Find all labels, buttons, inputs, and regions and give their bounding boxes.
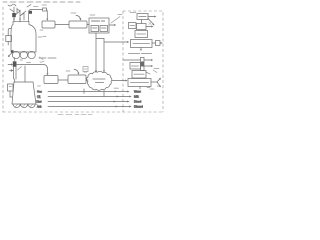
long vertical wire BB to cloud (left) [95,33,97,71]
dark mark at pipe bend [29,11,32,14]
line1 junction tick [83,89,85,94]
svg-text:Char: Char [36,100,42,104]
svg-text:Ash: Ash [37,105,42,109]
svg-text:Gas: Gas [37,90,42,94]
feed manifold label squiggle [8,4,16,6]
mid chain box MB [68,75,86,84]
svg-text:Diesel: Diesel [134,100,142,104]
conveyor lower feed arrow [9,70,13,72]
ref marks above right labels [147,86,159,88]
curved arrow into MB [74,70,79,74]
energy cloud [86,71,111,90]
ref label above mid chain [39,57,56,59]
pipe V1 top to dryer chain [29,10,48,22]
V1 side box pipe [8,29,11,46]
ref squiggle right of BB [111,15,122,24]
cluster4 ref marks [150,69,159,90]
ref dash above valve [34,5,47,7]
V2 side box [8,84,14,91]
right cluster 1: distribution boxes [137,14,148,20]
mid-line arrowheads [114,91,119,108]
top reference-numeral row (tiny text smudge dashes) [3,1,80,3]
V1 right ref mark [38,30,46,60]
box B2 (mill) [69,21,87,28]
right cluster 2: steam turbine boxes [135,31,148,38]
V1 side box [6,36,12,42]
mid chain box MA [44,76,58,84]
char conveyor column [14,62,17,79]
V2 bottom-right arrow [36,104,40,107]
wire MA to MB [58,79,68,81]
diagonal ref arrow [18,67,22,71]
gasifier vessel V1 [11,22,36,52]
BB inner marks [93,27,107,29]
V1 bottom scallops [12,51,19,58]
wire MB to cloud [86,79,88,81]
right cluster 3: heat exchanger [123,59,140,61]
svg-text:Water: Water [134,90,141,94]
right drop wire to V2 [24,66,26,82]
bottom utility line 3 [48,101,128,103]
ticks above conveyor [14,58,16,61]
left dashed boundary [2,7,4,112]
svg-text:Milk: Milk [134,95,139,99]
ref mark above BB [90,14,95,16]
branch bridge wire [96,38,104,40]
wire to steam turbine [104,41,128,43]
combustor vessel V2 [12,82,36,104]
ref marks above MB [66,71,87,72]
conveyor bottom connector [14,79,16,82]
wire B2 to burner box [87,24,89,26]
cluster2 caption smudge [129,53,152,55]
box B1 (dryer) [42,21,55,28]
conveyor feed arrow [8,64,12,66]
generator boxlet [156,41,161,46]
V2 grate scallop band (hatched) [13,104,35,108]
cluster3 ref text [146,70,157,74]
right subsystem dashed box [123,11,163,112]
small inline valve on top pipe [43,8,47,11]
BB title text smudge [92,20,105,22]
curved arrow into B2 [76,16,81,20]
ref dash above B2 [71,12,76,14]
cloud text smudges [93,79,105,83]
V2 side box pipe [10,91,12,97]
bottom utility line 4 [48,106,130,108]
manifold valve (dark blob) [12,13,16,17]
svg-text:Oil: Oil [37,95,41,99]
V1 bottom-left discharge arrow [11,50,14,53]
footer smudges [58,114,92,116]
small ref box left of cloud [83,67,88,72]
bottom utility line 2 [48,96,130,98]
svg-text:Ethanol: Ethanol [134,105,143,109]
wire B1 to B2 [55,24,69,26]
V2 right ref marks [38,86,42,98]
right cluster 4: load boxes [132,71,146,79]
arrowhead into box B1 [46,19,48,21]
bottom dashed boundary [3,111,163,113]
BB inner sub-box left [91,26,99,32]
wire conveyor to mid chain [16,65,48,75]
ref text marks near conveyor [20,60,31,63]
feed manifold pipes into gasifier [10,5,31,23]
bottom utility line 1 [48,91,128,93]
cloud bottom drop wire [103,91,105,97]
cluster1 ref text [130,12,136,14]
BB inner sub-box right [100,26,108,32]
ref dash above line1 right [114,87,119,89]
long vertical wire to cloud (right) [103,39,105,72]
wire cloud to right subsystem [112,80,126,82]
burner control box BB [89,18,109,33]
manifold arrowheads [13,19,21,21]
wire BB right with arrow [109,24,115,26]
